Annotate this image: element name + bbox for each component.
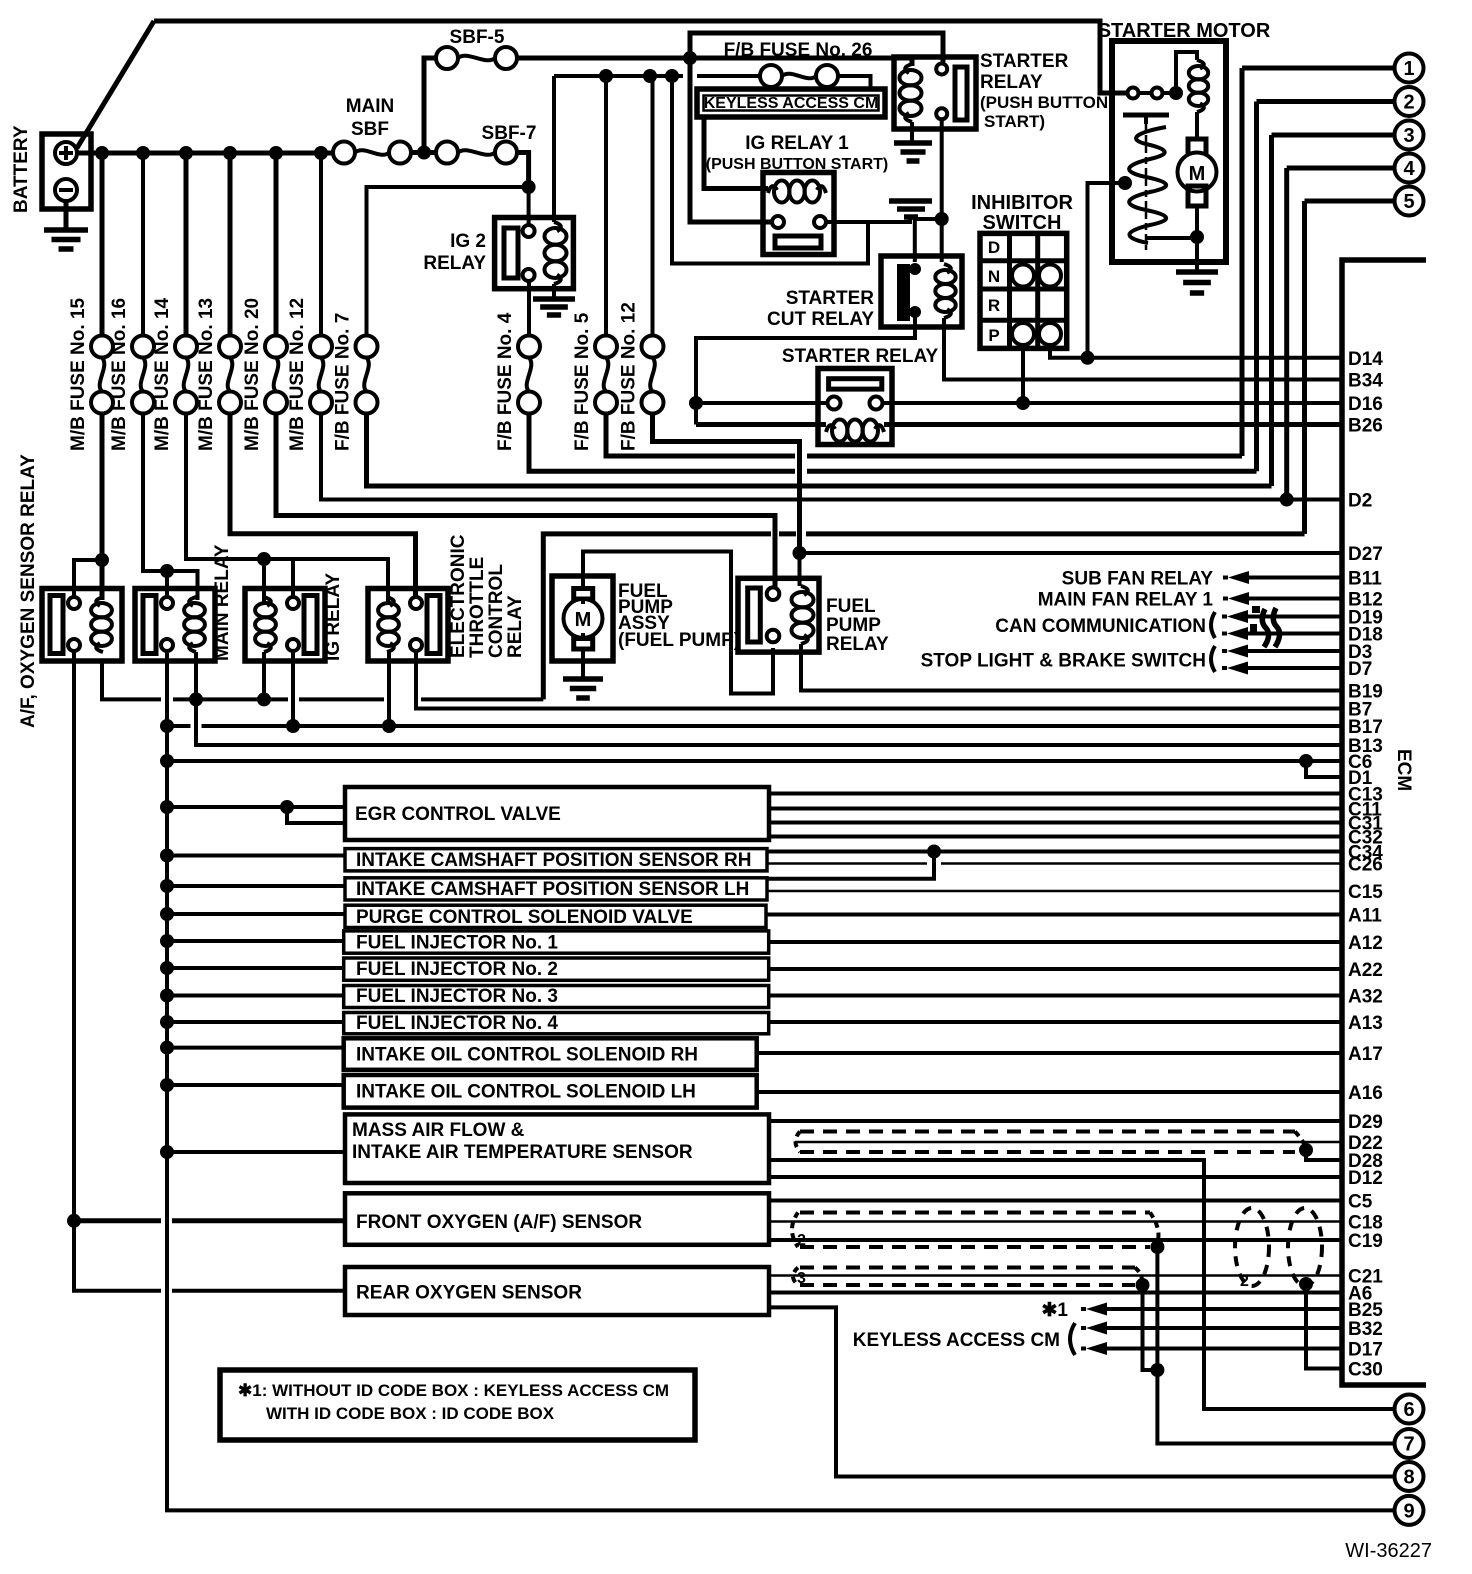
starter motor bbox=[1098, 20, 1271, 262]
wire circle5 line bbox=[543, 534, 1304, 700]
fuse F/B FUSE No. 12 bbox=[619, 302, 664, 451]
CAN communication arrows D19 D18 bbox=[995, 610, 1342, 640]
wire AF pin down to front O2 feed bbox=[74, 651, 161, 1291]
node starter motor bottom bbox=[1190, 230, 1204, 244]
fuse M/B FUSE No. 20 bbox=[242, 298, 287, 451]
wire IG1 right pin to ground bbox=[826, 218, 910, 222]
inhibitor switch bbox=[971, 192, 1073, 348]
svg-text:D12: D12 bbox=[1348, 1168, 1383, 1189]
box REAR OXYGEN SENSOR bbox=[345, 1267, 769, 1315]
svg-text:B32: B32 bbox=[1348, 1319, 1383, 1340]
svg-text:RELAY: RELAY bbox=[826, 634, 889, 655]
wire F/B fuse7 to circle 3 line bbox=[367, 413, 1272, 486]
svg-text:A13: A13 bbox=[1348, 1013, 1383, 1034]
wire C21 line bbox=[769, 1274, 1342, 1277]
shield MAF D22 bbox=[800, 1132, 1295, 1153]
svg-text:B25: B25 bbox=[1348, 1300, 1383, 1321]
wire SBF-5 branch to starter relay contact bbox=[690, 33, 943, 62]
wire ETC pin to B7 bbox=[416, 651, 1342, 709]
wire C5 line bbox=[769, 1199, 1342, 1203]
svg-text:✱1: WITHOUT ID CODE BOX : KEY: ✱1: WITHOUT ID CODE BOX : KEYLESS ACCESS… bbox=[238, 1381, 669, 1400]
relay main relay bbox=[135, 544, 233, 661]
wire FP coil to B19 bbox=[801, 644, 1342, 691]
svg-text:✱1: ✱1 bbox=[1042, 1300, 1069, 1321]
wire PBS bottom pin down bbox=[940, 119, 944, 262]
svg-text:WI-36227: WI-36227 bbox=[1345, 1540, 1432, 1562]
wire SCR coil to B34 bbox=[944, 318, 1236, 380]
fuse MAIN SBF bbox=[333, 96, 411, 164]
wire MAIN SBF to SBF-7 bbox=[410, 150, 437, 155]
svg-text:F/B FUSE No. 4: F/B FUSE No. 4 bbox=[495, 312, 516, 451]
riser circle2 bbox=[1254, 102, 1259, 472]
EGR second feed bbox=[280, 800, 294, 814]
battery bbox=[11, 125, 91, 213]
svg-text:A17: A17 bbox=[1348, 1044, 1383, 1065]
wire SBF-5 feed riser bbox=[424, 58, 437, 153]
svg-text:(PUSH BUTTON: (PUSH BUTTON bbox=[980, 93, 1108, 112]
relay IG relay bbox=[245, 573, 344, 661]
node twisted pair drain bbox=[1299, 1277, 1313, 1291]
svg-text:B17: B17 bbox=[1348, 717, 1383, 738]
circle 8 bbox=[1395, 1462, 1424, 1491]
wire A22 line bbox=[769, 967, 1342, 971]
node fuse16/main bbox=[160, 564, 174, 578]
fuse M/B FUSE No. 13 bbox=[196, 298, 241, 451]
svg-text:D14: D14 bbox=[1348, 349, 1383, 370]
svg-text:A16: A16 bbox=[1348, 1083, 1383, 1104]
wire A17 line bbox=[757, 1051, 1342, 1055]
wire ETC coil down bbox=[387, 652, 391, 726]
svg-text:RELAY: RELAY bbox=[505, 595, 526, 658]
relay starter cut relay bbox=[767, 256, 962, 330]
box FUEL INJECTOR No. 1 bbox=[344, 931, 769, 954]
svg-text:C19: C19 bbox=[1348, 1231, 1383, 1252]
svg-text:FRONT OXYGEN (A/F) SENSOR: FRONT OXYGEN (A/F) SENSOR bbox=[356, 1212, 642, 1233]
box INTAKE OIL CONTROL SOLENOID RH bbox=[344, 1038, 757, 1070]
wire F/B fuse5 to circle 1 line bbox=[606, 413, 1242, 456]
node IG feed bbox=[522, 180, 536, 194]
box EGR CONTROL VALVE bbox=[345, 787, 769, 840]
wire D1 jog bbox=[1306, 761, 1342, 777]
wire rear O2 third to circle 8 bbox=[769, 1307, 1395, 1476]
starter motor plunger bbox=[1123, 113, 1169, 118]
node SBF-5 branch bbox=[683, 51, 697, 65]
wire MAF third to circle 6 bbox=[768, 1160, 1395, 1409]
relay electronic throttle control relay bbox=[368, 534, 526, 661]
ground IG relay1 (inverted) bbox=[889, 201, 932, 217]
svg-text:STARTER MOTOR: STARTER MOTOR bbox=[1098, 20, 1271, 42]
svg-text:FUEL INJECTOR No. 1: FUEL INJECTOR No. 1 bbox=[356, 933, 558, 954]
wire fuse13 to ETC relay pin bbox=[230, 413, 416, 597]
relay A/F oxygen sensor relay bbox=[18, 454, 122, 728]
keyless access arrows B25 B32 D17 bbox=[853, 1300, 1342, 1355]
svg-text:B11: B11 bbox=[1348, 569, 1382, 590]
svg-text:C15: C15 bbox=[1348, 882, 1383, 903]
wire fuse16 down to main relay bbox=[143, 413, 198, 600]
svg-text:ELECTRONIC: ELECTRONIC bbox=[448, 534, 469, 658]
svg-text:C26: C26 bbox=[1348, 855, 1383, 876]
svg-text:6: 6 bbox=[1403, 1399, 1414, 1421]
ground IG2 relay bbox=[533, 284, 575, 315]
wire D27 line bbox=[800, 551, 1343, 555]
relay IG2 bbox=[423, 218, 573, 289]
svg-text:STOP LIGHT & BRAKE SWITCH: STOP LIGHT & BRAKE SWITCH bbox=[921, 651, 1206, 672]
wire fuse12 to ECM D2 bbox=[321, 413, 1342, 500]
riser circle3 bbox=[1269, 135, 1274, 486]
box FUEL INJECTOR No. 3 bbox=[344, 986, 769, 1008]
wire IG feed left to F/B fuse 7 bbox=[367, 187, 529, 336]
wire LH jog to C34 bbox=[767, 852, 934, 879]
fuse F/B FUSE No. 4 bbox=[495, 312, 540, 451]
svg-text:INHIBITOR: INHIBITOR bbox=[971, 192, 1073, 214]
svg-text:MAIN FAN RELAY 1: MAIN FAN RELAY 1 bbox=[1038, 590, 1214, 611]
box FRONT OXYGEN (A/F) SENSOR bbox=[345, 1193, 769, 1245]
circle 1 bbox=[1395, 54, 1424, 83]
svg-text:C5: C5 bbox=[1348, 1192, 1373, 1213]
keyless access cm box bbox=[697, 89, 885, 117]
twisted pair ellipses bbox=[1235, 1208, 1269, 1286]
svg-text:KEYLESS ACCESS CM: KEYLESS ACCESS CM bbox=[704, 95, 879, 112]
wire front shield drain down to circle 7 bbox=[1157, 1247, 1394, 1444]
ECM pin labels bbox=[1348, 349, 1383, 1381]
starter motor pins bbox=[1128, 88, 1139, 99]
wire main coil to B13 bbox=[196, 652, 1342, 745]
stop light brake switch arrows D3 D7 bbox=[921, 645, 1342, 675]
svg-text:FUEL INJECTOR No. 2: FUEL INJECTOR No. 2 bbox=[356, 959, 558, 980]
circle 5 bbox=[1395, 187, 1424, 216]
node inhibitor/D16 bbox=[1016, 396, 1030, 410]
svg-text:F/B FUSE No. 5: F/B FUSE No. 5 bbox=[572, 312, 593, 451]
box FUEL INJECTOR No. 4 bbox=[344, 1013, 769, 1035]
relay fuel pump relay bbox=[738, 578, 889, 655]
svg-text:4: 4 bbox=[1403, 158, 1415, 180]
ground fuel pump bbox=[563, 661, 603, 698]
circle 4 bbox=[1395, 154, 1424, 183]
node C6/D1 bbox=[1299, 754, 1313, 768]
wire shield drain to D28 bbox=[1306, 1150, 1342, 1160]
svg-text:MASS AIR FLOW &: MASS AIR FLOW & bbox=[352, 1120, 525, 1141]
box INTAKE CAMSHAFT POSITION SENSOR RH bbox=[345, 849, 767, 871]
wire inhibitor P right to D14 bbox=[1050, 345, 1236, 358]
svg-text:IG 2: IG 2 bbox=[450, 231, 486, 252]
svg-text:A11: A11 bbox=[1348, 906, 1382, 927]
wire fuse20 to fuel pump relay pin bbox=[276, 413, 775, 590]
wire IG coil down bbox=[262, 652, 266, 699]
svg-text:FUEL INJECTOR No. 3: FUEL INJECTOR No. 3 bbox=[356, 986, 558, 1007]
svg-text:D29: D29 bbox=[1348, 1112, 1383, 1133]
wire IG1 left pin bbox=[690, 58, 772, 222]
wire C26 line bbox=[767, 862, 1342, 865]
wire to starter cut relay bar bbox=[915, 219, 942, 262]
wire A16 line bbox=[757, 1090, 1342, 1094]
svg-text:START): START) bbox=[984, 112, 1045, 131]
svg-text:2: 2 bbox=[1240, 1273, 1249, 1290]
node shield D22 drain bbox=[1299, 1143, 1313, 1157]
svg-text:A/F, OXYGEN SENSOR RELAY: A/F, OXYGEN SENSOR RELAY bbox=[18, 454, 39, 728]
svg-text:A32: A32 bbox=[1348, 987, 1383, 1008]
svg-text:INTAKE CAMSHAFT POSITION SENSO: INTAKE CAMSHAFT POSITION SENSOR RH bbox=[356, 850, 752, 871]
fuse SBF-5 bbox=[436, 27, 517, 69]
wire D22 line (shielded) bbox=[795, 1141, 1342, 1144]
wire B26 line bbox=[696, 422, 1236, 427]
svg-text:MAIN RELAY: MAIN RELAY bbox=[212, 544, 233, 661]
wire C19 line bbox=[769, 1238, 1342, 1242]
fuse SBF-7 bbox=[436, 123, 536, 164]
svg-text:1: 1 bbox=[1403, 58, 1414, 80]
wire starter motor spring to D14 node bbox=[1088, 183, 1124, 358]
fuse F/B FUSE No. 26 bbox=[724, 40, 873, 87]
wire twisted drain to C30 bbox=[1306, 1284, 1342, 1369]
svg-text:CONTROL: CONTROL bbox=[486, 564, 507, 658]
wire C15 line bbox=[767, 890, 1342, 893]
wire A12 line bbox=[769, 940, 1342, 944]
svg-text:D2: D2 bbox=[1348, 491, 1372, 512]
svg-text:M/B FUSE No. 20: M/B FUSE No. 20 bbox=[242, 298, 263, 451]
svg-text:8: 8 bbox=[1403, 1467, 1414, 1489]
wire C13 C11 C31 C32 EGR lines bbox=[769, 794, 1342, 837]
wire A32 line bbox=[769, 994, 1342, 998]
wire fuse26 to keyless box bbox=[837, 76, 871, 87]
svg-text:ECM: ECM bbox=[1393, 749, 1414, 791]
wire F/B fuse4 feed from IG2 bbox=[527, 281, 531, 336]
svg-text:R: R bbox=[988, 296, 1000, 315]
svg-text:D16: D16 bbox=[1348, 394, 1383, 415]
svg-text:F/B FUSE No. 7: F/B FUSE No. 7 bbox=[333, 313, 354, 451]
riser circle4 bbox=[1284, 168, 1289, 500]
wire battery plus to top rail bbox=[77, 21, 154, 148]
svg-text:WITH ID CODE BOX : ID CODE BO: WITH ID CODE BOX : ID CODE BOX bbox=[266, 1404, 555, 1423]
svg-text:2: 2 bbox=[797, 1232, 806, 1249]
svg-text:RELAY: RELAY bbox=[423, 253, 486, 274]
svg-text:B34: B34 bbox=[1348, 371, 1383, 392]
svg-text:2: 2 bbox=[1403, 92, 1414, 114]
svg-text:D: D bbox=[988, 238, 1000, 257]
svg-text:(PUSH BUTTON START): (PUSH BUTTON START) bbox=[706, 156, 889, 173]
node D2 / circle4 bbox=[1280, 493, 1294, 507]
wire F/B fuse bus y76 bbox=[554, 74, 761, 78]
svg-text:FUEL INJECTOR No. 4: FUEL INJECTOR No. 4 bbox=[356, 1013, 558, 1034]
wire top rail to starter motor bbox=[154, 21, 1128, 93]
wire main relay pin long vertical bbox=[167, 651, 1395, 1510]
fuse F/B FUSE No. 5 bbox=[572, 312, 617, 451]
svg-text:F/B FUSE No. 26: F/B FUSE No. 26 bbox=[724, 40, 873, 61]
svg-text:KEYLESS ACCESS CM: KEYLESS ACCESS CM bbox=[853, 1330, 1060, 1351]
svg-text:PUMP: PUMP bbox=[826, 615, 881, 636]
svg-text:M/B FUSE No. 13: M/B FUSE No. 13 bbox=[196, 298, 217, 451]
svg-text:A12: A12 bbox=[1348, 933, 1383, 954]
svg-text:INTAKE OIL CONTROL SOLENOID RH: INTAKE OIL CONTROL SOLENOID RH bbox=[356, 1045, 698, 1066]
node PBS/SCR bbox=[935, 212, 949, 226]
box INTAKE CAMSHAFT POSITION SENSOR LH bbox=[345, 878, 767, 900]
node front O2 feed bbox=[67, 1214, 81, 1228]
starter motor M motor bbox=[1195, 112, 1199, 139]
wire C34 line bbox=[767, 850, 1342, 854]
svg-text:3: 3 bbox=[1403, 125, 1414, 147]
svg-text:M/B FUSE No. 12: M/B FUSE No. 12 bbox=[287, 298, 308, 451]
svg-text:B26: B26 bbox=[1348, 416, 1383, 437]
svg-text:C30: C30 bbox=[1348, 1360, 1383, 1381]
circle 3 bbox=[1395, 121, 1424, 150]
svg-text:M/B FUSE No. 15: M/B FUSE No. 15 bbox=[68, 297, 89, 451]
wire inhibitor P left to D16 bbox=[1021, 345, 1025, 403]
svg-text:RELAY: RELAY bbox=[980, 72, 1043, 93]
wire F/B fuse4 to circle 2 line bbox=[529, 413, 1257, 471]
node D14 bbox=[1081, 351, 1095, 365]
svg-text:P: P bbox=[988, 326, 999, 345]
node starter motor coil bbox=[1169, 86, 1183, 100]
svg-text:INTAKE CAMSHAFT POSITION SENSO: INTAKE CAMSHAFT POSITION SENSOR LH bbox=[356, 879, 749, 900]
circle 9 bbox=[1395, 1496, 1424, 1525]
box PURGE CONTROL SOLENOID VALVE bbox=[345, 905, 766, 928]
ground starter motor bbox=[1176, 262, 1218, 293]
svg-text:STARTER: STARTER bbox=[980, 51, 1069, 72]
shield rear O2 C21 bbox=[800, 1268, 1135, 1286]
svg-text:D17: D17 bbox=[1348, 1340, 1383, 1361]
svg-text:INTAKE OIL CONTROL SOLENOID LH: INTAKE OIL CONTROL SOLENOID LH bbox=[356, 1082, 696, 1103]
wire rear O2 feed right part bbox=[172, 1289, 345, 1293]
svg-text:7: 7 bbox=[1403, 1434, 1414, 1456]
main fan relay arrow B12 bbox=[1038, 590, 1342, 611]
sub fan relay arrow B11 bbox=[1062, 569, 1342, 590]
svg-text:D7: D7 bbox=[1348, 659, 1372, 680]
wire A11 line bbox=[766, 913, 1342, 917]
node main relay coil L1 bbox=[189, 692, 203, 706]
wire fuse14 to IG relay and ETC coil bbox=[186, 413, 388, 603]
shield front O2 C18 C19 bbox=[800, 1213, 1150, 1248]
wire IG feed down to IG2 relay bbox=[527, 187, 531, 226]
relay IG RELAY 1 bbox=[706, 133, 889, 255]
node SBF junction bbox=[417, 146, 431, 160]
wire fuel pump to relay switch bbox=[583, 552, 773, 694]
svg-text:F/B FUSE No. 12: F/B FUSE No. 12 bbox=[619, 302, 640, 451]
node drains join bbox=[1150, 1363, 1164, 1377]
node shield front drain bbox=[1150, 1240, 1164, 1254]
svg-text:M: M bbox=[1189, 163, 1206, 185]
node D27 bbox=[793, 546, 807, 560]
wire C6 line bbox=[167, 759, 1342, 763]
svg-text:INTAKE AIR TEMPERATURE SENSOR: INTAKE AIR TEMPERATURE SENSOR bbox=[352, 1142, 693, 1163]
fuel pump assy bbox=[552, 576, 740, 661]
svg-text:SBF-7: SBF-7 bbox=[482, 123, 537, 144]
svg-text:CUT RELAY: CUT RELAY bbox=[767, 309, 874, 330]
wire A13 line bbox=[769, 1020, 1342, 1024]
svg-text:3: 3 bbox=[797, 1270, 806, 1287]
wire B17 line bbox=[167, 724, 1342, 728]
wire IG pin down bbox=[291, 651, 295, 726]
svg-text:IG RELAY 1: IG RELAY 1 bbox=[745, 133, 849, 154]
node spring tap bbox=[1118, 176, 1132, 190]
svg-text:(FUEL PUMP): (FUEL PUMP) bbox=[618, 630, 740, 651]
circle 6 bbox=[1395, 1395, 1424, 1424]
svg-text:A22: A22 bbox=[1348, 960, 1383, 981]
svg-text:N: N bbox=[988, 267, 1000, 286]
svg-text:M/B FUSE No. 16: M/B FUSE No. 16 bbox=[109, 298, 130, 451]
node main bus bbox=[77, 151, 334, 156]
svg-text:BATTERY: BATTERY bbox=[11, 125, 32, 213]
svg-text:SBF: SBF bbox=[351, 119, 389, 140]
riser circle1 bbox=[1240, 68, 1245, 456]
box MASS AIR FLOW &amp; bbox=[345, 1114, 769, 1183]
svg-text:M: M bbox=[575, 609, 592, 631]
svg-text:STARTER RELAY: STARTER RELAY bbox=[782, 346, 939, 367]
wire D29 line bbox=[768, 1119, 1342, 1123]
fuse M/B FUSE No. 12 bbox=[287, 298, 332, 451]
fuse F/B FUSE No. 7 bbox=[333, 313, 378, 451]
relay starter relay PBS bbox=[894, 51, 1108, 131]
wire IG2 coil feed riser bbox=[552, 76, 556, 222]
fuse column verticals bbox=[100, 153, 105, 336]
wire C18 line bbox=[769, 1220, 1342, 1223]
svg-text:PURGE CONTROL SOLENOID VALVE: PURGE CONTROL SOLENOID VALVE bbox=[356, 907, 693, 928]
wire spring bottom to motor bbox=[1146, 236, 1197, 240]
wire F/B fuse12b to fuel pump relay coil bbox=[653, 413, 800, 550]
wire D16 line bbox=[696, 401, 1236, 405]
starter motor field coil bbox=[1176, 52, 1197, 93]
svg-text:THROTTLE: THROTTLE bbox=[467, 557, 488, 658]
svg-text:CAN COMMUNICATION: CAN COMMUNICATION bbox=[995, 616, 1206, 637]
node D16 bbox=[689, 396, 703, 410]
ECM bracket bbox=[1342, 260, 1426, 1385]
svg-text:SWITCH: SWITCH bbox=[983, 212, 1062, 234]
wire SBF-7 output down bbox=[516, 153, 529, 188]
svg-text:SBF-5: SBF-5 bbox=[450, 27, 505, 48]
circle 7 bbox=[1395, 1429, 1424, 1458]
note box id code bbox=[220, 1370, 695, 1440]
wire IG1 circuit loop bbox=[672, 76, 868, 264]
svg-text:SUB FAN RELAY: SUB FAN RELAY bbox=[1062, 569, 1214, 590]
starter motor spring bbox=[1129, 127, 1166, 243]
sensor feed wires bbox=[160, 800, 345, 1159]
ground starter relay PBS bbox=[894, 122, 932, 161]
wire front O2 feed bbox=[74, 1218, 345, 1223]
box INTAKE OIL CONTROL SOLENOID LH bbox=[344, 1075, 757, 1108]
dashes D14 B34 D16 B26 bbox=[1236, 358, 1312, 403]
svg-text:FUEL: FUEL bbox=[826, 596, 876, 617]
svg-text:EGR CONTROL VALVE: EGR CONTROL VALVE bbox=[355, 804, 561, 825]
wire keyless box to IG relay1 coil bbox=[704, 117, 768, 189]
wire fuse15 down to A/F relay bbox=[100, 413, 105, 600]
node IG relay coil L1 bbox=[257, 692, 271, 706]
fuse M/B FUSE No. 16 bbox=[109, 298, 154, 451]
wire L1 coils bus bbox=[102, 660, 543, 699]
wire D12 line bbox=[768, 1175, 1342, 1179]
CAN crossing marks bbox=[1262, 608, 1279, 647]
svg-text:5: 5 bbox=[1403, 191, 1414, 213]
node fuse15/AF pin bbox=[95, 553, 109, 567]
wire FP coil feed through bbox=[798, 550, 802, 586]
svg-text:MAIN: MAIN bbox=[346, 96, 395, 117]
svg-text:REAR OXYGEN SENSOR: REAR OXYGEN SENSOR bbox=[356, 1283, 582, 1304]
svg-text:STARTER: STARTER bbox=[786, 288, 875, 309]
wire SCR bar to D16 node bbox=[696, 312, 915, 425]
wire F/B fuse12b feed bbox=[651, 76, 655, 336]
fuse M/B FUSE No. 14 bbox=[152, 297, 197, 451]
node shield rear drain bbox=[1136, 1278, 1150, 1292]
fuse M/B FUSE No. 15 bbox=[68, 297, 113, 451]
node fuse14/IG coil bbox=[257, 552, 271, 566]
circle 2 bbox=[1395, 87, 1424, 116]
wire rear shield drain down bbox=[1143, 1285, 1153, 1370]
wire A6 line bbox=[769, 1291, 1342, 1295]
wire SBF-5 output to starter relay coil bbox=[516, 58, 912, 66]
battery ground bbox=[44, 201, 88, 249]
wire F/B fuse5 feed bbox=[604, 76, 608, 336]
box FUEL INJECTOR No. 2 bbox=[344, 958, 769, 980]
svg-text:9: 9 bbox=[1403, 1500, 1414, 1522]
node C34/LH bbox=[927, 845, 941, 859]
svg-text:D27: D27 bbox=[1348, 544, 1383, 565]
svg-text:M/B FUSE No. 14: M/B FUSE No. 14 bbox=[152, 297, 173, 451]
